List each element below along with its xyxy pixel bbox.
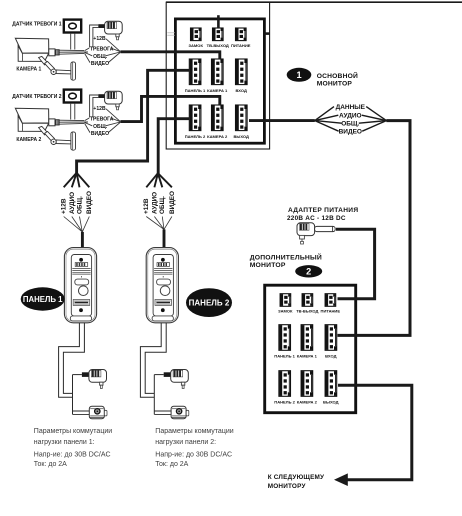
monitor 1 box (основной монитор): [175, 19, 264, 143]
svg-text:КАМЕРА 2: КАМЕРА 2: [16, 137, 41, 143]
svg-text:2: 2: [306, 267, 311, 277]
button dot: [79, 308, 83, 312]
wire to lock: [73, 410, 90, 412]
door panel 2: [146, 248, 178, 323]
svg-text:ОСНОВНОЙ: ОСНОВНОЙ: [317, 71, 358, 80]
panel outline: [64, 248, 96, 323]
svg-text:Ток: до 2А: Ток: до 2А: [155, 461, 188, 468]
wire into panel 1: [81, 232, 84, 249]
label parameters panel 1: [34, 428, 112, 468]
adapter for lock: [89, 370, 107, 383]
upper fan: [64, 173, 90, 188]
svg-text:К СЛЕДУЮЩЕМУ: К СЛЕДУЮЩЕМУ: [268, 474, 325, 481]
svg-text:МОНИТОРУ: МОНИТОРУ: [268, 483, 307, 490]
wire: monitor2 ВЫХОД down to next-monitor arrow: [338, 385, 412, 480]
lens: [79, 286, 89, 296]
svg-text:ДОПОЛНИТЕЛЬНЫЙ: ДОПОЛНИТЕЛЬНЫЙ: [250, 252, 322, 261]
svg-text:220В AC - 12В DC: 220В AC - 12В DC: [287, 215, 346, 222]
svg-text:Параметры коммутации: Параметры коммутации: [155, 428, 233, 435]
lower fan: [146, 217, 172, 230]
svg-text:ДАТЧИК ТРЕВОГИ 1: ДАТЧИК ТРЕВОГИ 1: [12, 21, 61, 27]
bubble 1: [287, 68, 312, 82]
adapter cord: [98, 24, 104, 28]
svg-text:ВИДЕО: ВИДЕО: [169, 191, 176, 214]
grille lines: [72, 269, 90, 275]
wire: panel to lock loop (outer): [59, 323, 80, 397]
power adapter for monitor 2: [297, 223, 335, 244]
monitor 1 connectors: [185, 28, 251, 139]
lock circuit below panel 2: [140, 323, 188, 419]
wire: panel 1 riser to monitor1 ПАНЕЛЬ 1: [77, 70, 190, 173]
alarm sensor box: [64, 20, 81, 33]
monitor 2 connectors: [274, 294, 340, 405]
fan lines to labels: [85, 39, 121, 63]
panel ellipse label 2: [186, 288, 232, 317]
faint left frame stub: [167, 32, 175, 34]
svg-text:ПАНЕЛЬ 2: ПАНЕЛЬ 2: [189, 299, 230, 308]
upper fan: [146, 173, 172, 187]
svg-text:ПАНЕЛЬ 1: ПАНЕЛЬ 1: [23, 295, 63, 304]
sensor wires: [70, 33, 72, 50]
svg-text:ДАННЫЕ: ДАННЫЕ: [336, 104, 366, 111]
camera body: [18, 46, 49, 62]
speaker slots: [75, 263, 88, 267]
svg-text:+12В: +12В: [143, 198, 150, 214]
svg-text:ОБЩ.: ОБЩ.: [159, 196, 166, 214]
svg-text:КАМЕРА 1: КАМЕРА 1: [16, 67, 41, 73]
wire: panel to adapter loop (inner): [63, 323, 84, 394]
lower fan: [64, 217, 90, 232]
nameplate: [70, 316, 91, 321]
lower speaker: [73, 300, 90, 306]
camera power adapter: [105, 21, 123, 34]
svg-text:нагрузки панели 1:: нагрузки панели 1:: [34, 439, 95, 446]
label parameters panel 2: [155, 428, 233, 468]
wire: camera group 2 to monitor1 КАМЕРА 2: [120, 96, 219, 121]
svg-text:ВИДЕО: ВИДЕО: [339, 129, 362, 136]
wire: camera group 1 to monitor1 КАМЕРА 1: [120, 52, 219, 59]
window: [75, 279, 89, 285]
bundle fan left lines: [315, 107, 342, 132]
svg-text:Ток: до 2А: Ток: до 2А: [34, 461, 67, 468]
svg-text:МОНИТОР: МОНИТОР: [250, 262, 286, 269]
svg-text:ОБЩ.: ОБЩ.: [93, 54, 108, 60]
svg-text:ДАТЧИК ТРЕВОГИ 2: ДАТЧИК ТРЕВОГИ 2: [12, 94, 61, 100]
top border line: [166, 1, 462, 3]
wire to adapter: [73, 374, 82, 376]
svg-text:АУДИО: АУДИО: [69, 192, 76, 214]
svg-text:Напр-ие: до 30В DC/AC: Напр-ие: до 30В DC/AC: [34, 452, 111, 459]
wire: bundle to monitor2 ВХОД: [338, 121, 411, 336]
inner face: [71, 255, 91, 317]
svg-text:нагрузки панели 2:: нагрузки панели 2:: [155, 439, 216, 446]
svg-text:Параметры коммутации: Параметры коммутации: [34, 428, 112, 435]
svg-text:АУДИО: АУДИО: [339, 113, 362, 120]
adapter plug blob: [82, 372, 89, 377]
camera cable: [59, 49, 84, 51]
svg-text:ВИДЕО: ВИДЕО: [91, 61, 109, 67]
svg-text:ТРЕВОГА: ТРЕВОГА: [90, 46, 114, 52]
wire: monitor1 ПИТАНИЕ to frame: [265, 32, 270, 35]
svg-text:1: 1: [296, 70, 301, 80]
svg-text:АУДИО: АУДИО: [151, 192, 158, 214]
camera lens: [49, 49, 55, 56]
svg-text:+12В: +12В: [61, 198, 68, 214]
electric lock: [89, 406, 104, 419]
svg-text:ОБЩ.: ОБЩ.: [77, 196, 84, 214]
svg-text:Напр-ие: до 30В DC/AC: Напр-ие: до 30В DC/AC: [155, 452, 232, 459]
wire into panel 2: [163, 229, 166, 248]
svg-text:+12В: +12В: [93, 36, 106, 42]
wire: panel 2 riser to monitor1 ПАНЕЛЬ 2: [158, 119, 189, 178]
svg-text:ВИДЕО: ВИДЕО: [86, 191, 93, 214]
monitor 2 box (дополнительный монитор): [265, 285, 356, 413]
svg-text:ОБЩ.: ОБЩ.: [341, 121, 359, 128]
svg-text:АДАПТЕР ПИТАНИЯ: АДАПТЕР ПИТАНИЯ: [288, 207, 358, 214]
wire: monitor1 ВЫХОД to bundle: [249, 119, 315, 122]
camera/sensor cluster 2: [15, 90, 122, 151]
mounting frame around main monitor: [166, 2, 269, 149]
svg-text:МОНИТОР: МОНИТОР: [317, 80, 353, 87]
bubble 2: [295, 265, 322, 277]
arrowhead to next monitor: [334, 473, 348, 486]
wire: TV-out stub above monitor 1: [217, 15, 220, 28]
bundle fan right lines: [359, 107, 387, 132]
wire: power adapter to monitor2 ПИТАНИЕ: [336, 229, 375, 298]
top dot: [79, 258, 83, 262]
panel ellipse label 1: [21, 287, 65, 310]
camera bracket: [39, 56, 48, 65]
junction riser: [72, 375, 74, 415]
